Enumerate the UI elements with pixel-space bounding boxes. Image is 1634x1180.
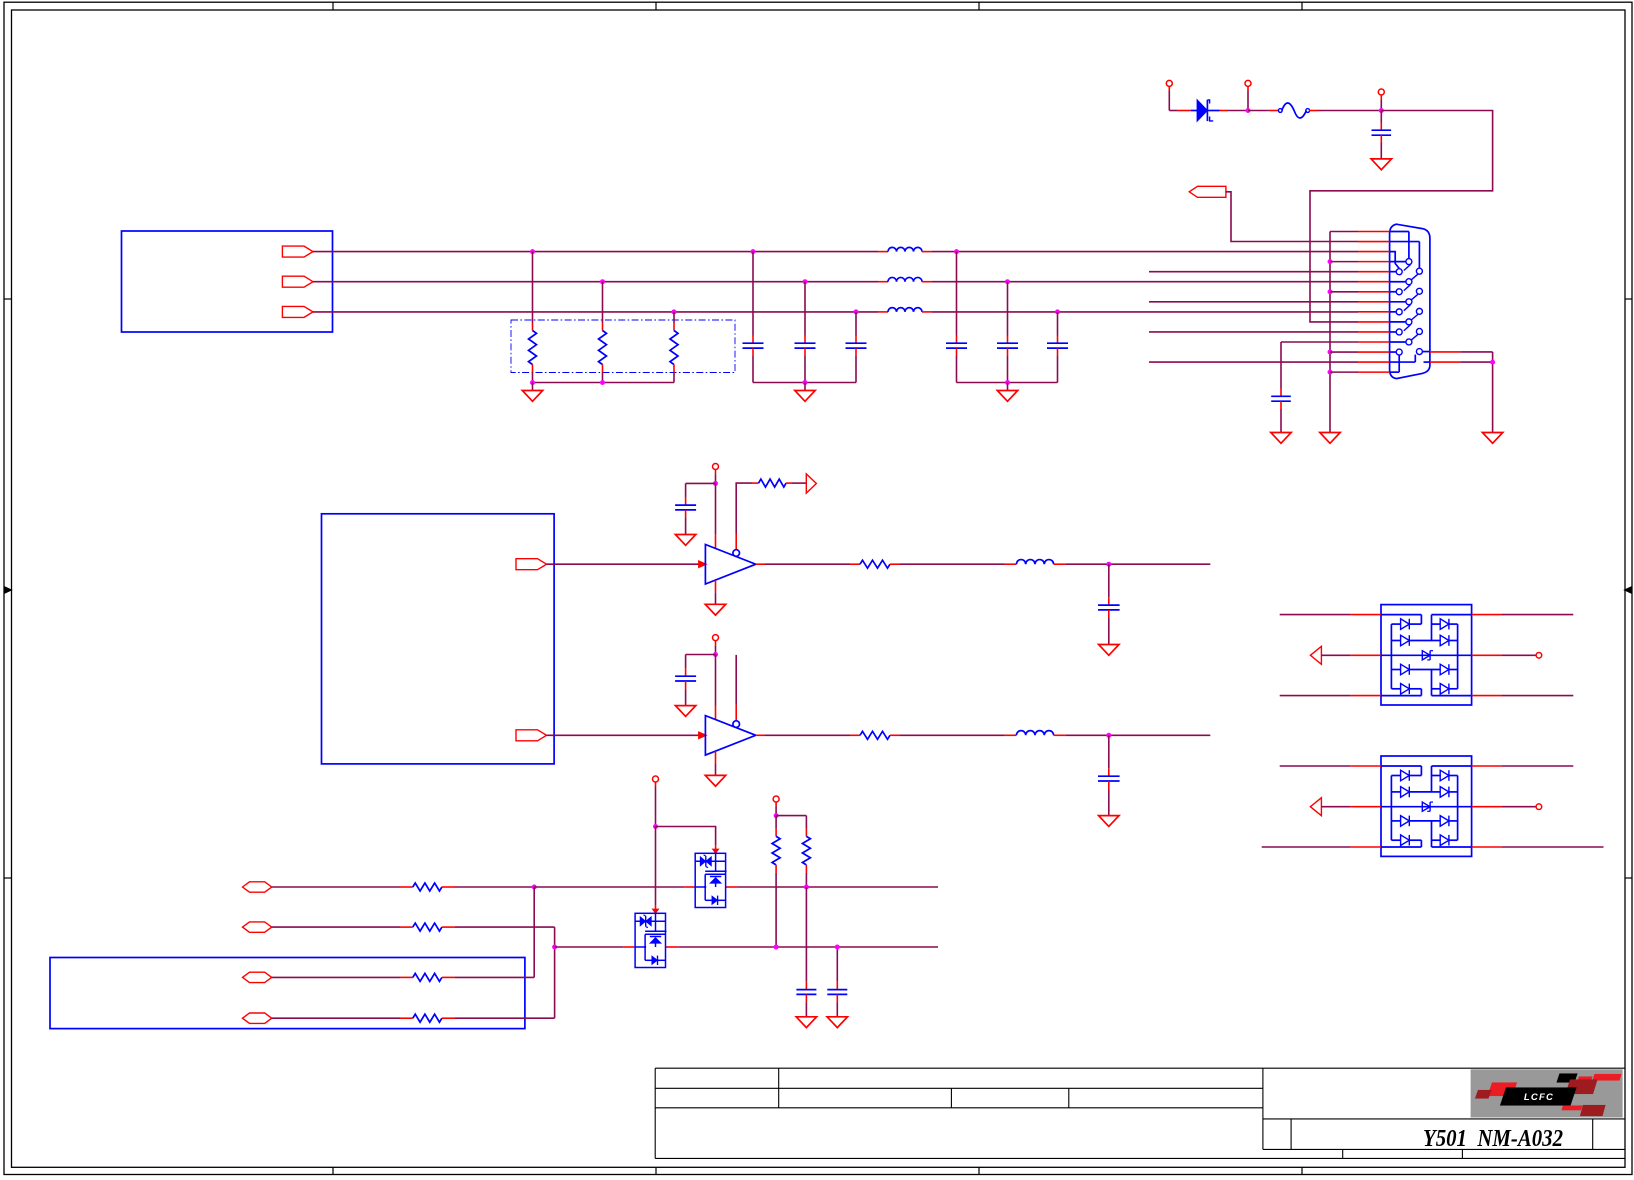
power port P3 [1378,89,1384,95]
wire cap common 1 [753,382,856,384]
op-amp buffer U [705,545,755,585]
ground [795,391,815,402]
pin arrow into TVS2 [655,906,657,910]
junction power [713,652,718,657]
power port [713,464,719,470]
junction shield [1490,360,1495,365]
connector J1 (video source) [122,231,333,332]
junction power [713,481,718,486]
wire pin8 stub net [1149,301,1358,303]
wire ground stem [804,383,806,391]
pin arrow into TVS1 [715,846,717,850]
junction bus pin4 [1328,259,1333,264]
wire ground stem [1007,383,1009,391]
junction bus pin15 [1328,370,1333,375]
wire buffer output [756,734,765,736]
wire port B + resistor [272,926,400,928]
capacitor C6 [1007,282,1009,336]
wire power to buffer [715,483,717,534]
ground [705,604,725,615]
capacitor C8 (pin12) [1281,341,1358,343]
junction BLUE/C4 [854,309,859,314]
resistor R1 [532,252,534,323]
wire P5 lead [775,802,777,807]
pin arrow GREEN out [282,276,313,287]
resistor (output series) [860,731,890,739]
power port P2 [1245,80,1251,86]
port arrow DDC_B [243,922,272,932]
input arrowhead [699,561,707,568]
junction BLUE/R3 [672,309,677,314]
junction output/cap [1106,733,1111,738]
ferrite bead [1005,563,1017,565]
wire power to buffer [715,655,717,706]
input arrowhead [699,732,707,739]
ESD diodes row3 [1391,669,1400,671]
svg-text:LCFC: LCFC [1524,1092,1554,1103]
wire port A + resistor [272,886,400,888]
power port U5 mid [1536,804,1542,810]
wire U4 mid line [1321,654,1350,656]
port arrow DDC_A [243,882,272,892]
capacitor (filter) [1108,564,1110,597]
junction line2 tap [552,945,557,950]
wire J2 shield right [1430,351,1461,353]
wire power lead [715,641,717,646]
wire port C + resistor [272,976,400,978]
wire port D + resistor [272,1017,400,1019]
ESD diodes row4 [1391,688,1400,690]
IC U3 (port block) [50,958,525,1029]
resistor R8 (pullup) [776,815,806,817]
capacitor (decoupling) [685,483,687,497]
wire U5 mid line [1321,806,1350,808]
diode D1 (zener) [1191,110,1197,112]
wire BLUE channel [313,311,878,313]
ESD rails [1390,624,1392,689]
wire A to TVS line1 [534,886,684,888]
junction P4 branch [653,824,658,829]
wire to TVS1 pin [656,827,716,846]
ground [1099,645,1119,656]
ground [1271,433,1291,444]
wire pin5 stub net [1149,271,1358,273]
ferrite bead L3 [878,311,888,313]
ground [1482,433,1502,444]
wire line2 [555,946,624,948]
wire to bead [890,563,900,565]
junction R8/line1 [804,885,809,890]
wire output net [1065,563,1210,565]
junction RED/C5 [954,249,959,254]
wire P1 to D1 anode [1169,110,1177,112]
ESD center zener [1381,654,1472,656]
wire buffer ground [715,751,717,763]
junction GREEN/R2 [600,279,605,284]
port arrow U5 mid [1310,798,1321,816]
capacitor (filter) [1108,735,1110,768]
junction bus pin7 [1328,289,1333,294]
ground [997,391,1017,402]
junction RED/C2 [751,249,756,254]
capacitor C5 [956,252,958,336]
port arrow DDC_D [243,1013,272,1023]
wire GREEN to VGA pin6 [932,281,1358,283]
wire to TVS2 pin [655,827,657,906]
port arrow U4 mid [1310,646,1321,664]
op-amp buffer U [705,716,755,756]
junction GREEN/C3 [803,279,808,284]
wire tie A-C [533,887,535,977]
ESD rails [1390,776,1392,841]
wire to bead [890,734,900,736]
ground [1320,433,1340,444]
svg-text:Y501 NM-A032: Y501 NM-A032 [1423,1126,1563,1152]
wire VIN to fuse F1 [1248,110,1269,112]
ESD diodes row3 [1391,820,1400,822]
junction GREEN/C6 [1005,279,1010,284]
wire RED channel [313,251,878,253]
wire U5 bottom line [1262,846,1351,848]
capacitor C1 [1380,111,1382,123]
wire P2 lead [1247,86,1249,91]
wire U5 top line [1280,765,1351,767]
J2 pin holes [1396,269,1402,275]
ground [1099,816,1119,827]
ESD array box [1381,756,1472,856]
wire output net [1065,734,1210,736]
ESD top rail [1381,765,1421,767]
IC U1 (graphics source) [322,514,555,764]
wire P3 lead [1380,95,1382,100]
junction BLUE/C7 [1055,309,1060,314]
wire cap common 2 [957,382,1058,384]
pin arrow RED out [282,246,313,257]
capacitor (decoupling) [685,655,687,669]
wire RED to VGA pin3 [932,251,1358,253]
J2 internal traces [1390,231,1409,233]
resistor R7 (pullup) [775,816,777,829]
ground [675,706,695,717]
wire VGA5V to connector pin10 [1310,111,1493,322]
ESD top rail [1381,614,1421,616]
capacitor C9 [805,887,807,982]
junction R7/line2 [774,945,779,950]
capacitor C10 [836,947,838,982]
ESD diodes row2 [1391,791,1400,793]
resistor R2 [602,282,604,323]
power port [713,635,719,641]
pin arrow HSYNC out [516,559,547,570]
junction VGA5V [1379,108,1384,113]
wire P1 lead [1168,86,1170,91]
ferrite bead [1005,734,1017,736]
ground [1371,159,1391,170]
wire enable net [735,534,737,550]
wire U4 bottom line [1280,695,1351,697]
capacitor C4 [855,312,857,336]
wire enable stub [735,705,737,721]
pin arrow BLUE out [282,306,313,317]
ESD diodes row4 [1391,839,1400,841]
ground [675,535,695,546]
junction output/cap [1106,562,1111,567]
TVS pack D3 [635,913,665,967]
ESD array box [1381,605,1472,705]
wire branch to cap [686,654,716,656]
termination resistor pack (dashed box) [511,320,735,373]
wire U4 top line [1280,614,1351,616]
fuse F1 [1278,109,1282,113]
wire buffer input [547,563,699,565]
connector J2 (DB15 VGA) shell [1390,224,1430,378]
junction common/ground [530,380,535,385]
wire D1 cathode to node VIN [1220,110,1227,112]
wire ground bus [1329,232,1331,433]
port arrow DDC_C [243,972,272,982]
ground [705,775,725,786]
ground [522,391,542,402]
power port P1 [1166,80,1172,86]
wire branch to cap [686,482,716,484]
ground [827,1017,847,1028]
wire tie B-D [554,927,556,1018]
wire F1 to node VGA5V [1309,110,1318,112]
ferrite bead L1 [878,251,888,253]
junction bus pin13 [1328,350,1333,355]
capacitor C2 [752,252,754,336]
wire BLUE to VGA pin9 [932,311,1358,313]
capacitor C7 [1057,312,1059,336]
wire buffer input [547,734,699,736]
J2 pin stubs [1358,231,1390,233]
wire GREEN channel [313,281,878,283]
resistor (series) [759,479,787,487]
junction cap common 2/ground [1005,380,1010,385]
ESD diodes row1 [1391,775,1400,777]
wire to port [786,482,792,484]
pin arrow VSYNC out [516,730,547,741]
wire ground stem [532,383,534,391]
ferrite bead L2 [878,281,888,283]
wire P4 lead [655,782,657,787]
port arrow out [806,474,816,493]
wire pin14 stub net [1149,361,1358,363]
ESD diodes row2 [1391,640,1400,642]
ESD bottom rail [1381,695,1421,697]
capacitor C3 [804,282,806,336]
ESD bottom rail [1381,846,1421,848]
junction P5 branch [774,813,779,818]
wire buffer output [756,563,765,565]
wire port to connector pin2 [1226,192,1358,242]
wire power lead [715,470,717,475]
resistor (output series) [860,560,890,568]
power port P4 [653,776,659,782]
wire resistor common [533,382,675,384]
junction C10/line2 [835,945,840,950]
junction RED/R1 [530,249,535,254]
junction cap common/ground [803,380,808,385]
ESD diodes row1 [1391,623,1400,625]
ESD center zener [1381,806,1472,808]
TVS pack D2 [695,853,725,907]
wire pin11 stub net [1149,331,1358,333]
wire buffer ground [715,580,717,592]
power port P5 [773,796,779,802]
power port U4 mid [1536,653,1542,659]
port VGA_5V (input arrow) [1189,186,1226,197]
ground [796,1017,816,1028]
junction A/C tie [532,885,537,890]
resistor R3 [673,312,675,323]
junction VIN [1246,108,1251,113]
